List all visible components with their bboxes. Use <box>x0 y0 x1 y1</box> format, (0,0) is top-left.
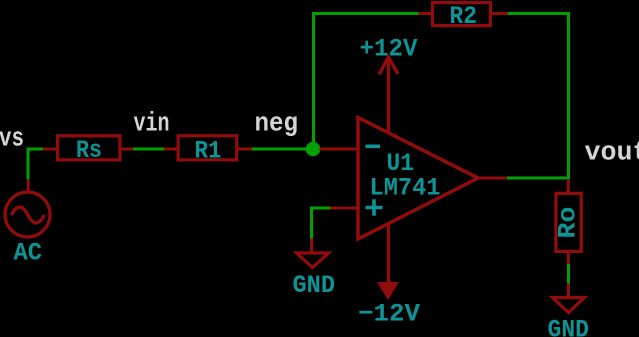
op-amp U1 inverting input pin <box>320 148 360 151</box>
resistor R2 <box>433 3 491 26</box>
wire feedback left vertical <box>312 14 315 150</box>
ground pin left <box>310 239 313 255</box>
resistor R1 <box>178 136 237 160</box>
svg-text:Ro: Ro <box>554 207 583 239</box>
AC source pin <box>27 179 30 193</box>
ground symbol left <box>297 253 329 268</box>
power -12V arrow <box>378 283 398 300</box>
resistor Rs pins <box>43 148 58 151</box>
svg-text:−12V: −12V <box>358 300 420 329</box>
resistor Rs <box>58 136 120 160</box>
op-amp minus mark <box>366 145 381 149</box>
svg-text:+12V: +12V <box>360 35 418 64</box>
svg-text:LM741: LM741 <box>370 174 441 203</box>
wire vs corner to AC source <box>28 149 44 180</box>
svg-text:vin: vin <box>134 110 170 140</box>
svg-text:vout: vout <box>585 139 639 169</box>
resistor Ro bottom pin <box>567 252 570 265</box>
wire feedback top right segment <box>508 12 569 15</box>
svg-text:neg: neg <box>255 110 299 140</box>
ground pin right <box>567 284 570 300</box>
wire Rs to R1 <box>131 148 166 151</box>
wire Ro to ground <box>567 263 570 285</box>
resistor R1 pins <box>164 148 179 151</box>
svg-text:GND: GND <box>548 316 590 337</box>
svg-text:GND: GND <box>293 271 336 300</box>
op-amp U1 triangle <box>358 118 478 240</box>
power -12V pin line <box>387 222 390 284</box>
wire plus input to ground <box>312 208 332 240</box>
svg-text:vs: vs <box>0 125 24 155</box>
resistor R2 pins <box>419 12 433 15</box>
wire feedback top left segment <box>312 12 420 15</box>
ground symbol right <box>553 298 585 313</box>
wire opamp output to vout node <box>506 177 570 180</box>
svg-text:R1: R1 <box>195 137 222 166</box>
svg-text:R2: R2 <box>450 2 478 31</box>
wire feedback right vertical to vout node <box>567 12 570 178</box>
AC source sine wave <box>12 207 45 223</box>
resistor Ro <box>556 193 581 251</box>
op-amp plus mark <box>366 199 383 215</box>
resistor Ro top pin <box>567 179 570 194</box>
AC source circle <box>5 192 50 237</box>
svg-text:Rs: Rs <box>76 136 102 165</box>
power +12V arrow <box>379 57 398 75</box>
junction node neg <box>306 142 321 157</box>
power +12V pin line <box>387 57 390 134</box>
svg-text:AC: AC <box>14 239 43 268</box>
wire R1 to node neg <box>251 148 313 151</box>
op-amp U1 output pin <box>477 177 507 180</box>
op-amp U1 non-inverting input pin <box>330 207 360 210</box>
